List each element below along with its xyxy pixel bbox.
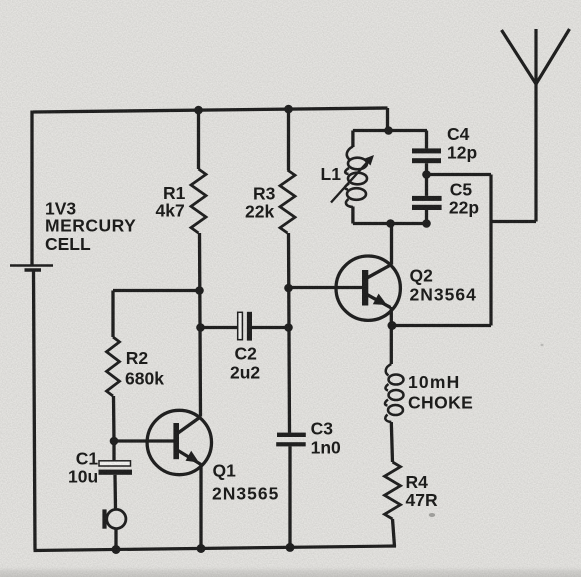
resistor R4 [385, 462, 401, 519]
transistor Q2 emitter diagonal [366, 294, 391, 308]
node dot R2 / Q1 base / C1 [110, 437, 119, 446]
node dot R1 bottom / R2 feed [195, 286, 204, 295]
wire left rail lower (battery -) [34, 272, 36, 550]
microphone MIC circle [107, 509, 126, 528]
wire supply drop to tank top [386, 108, 389, 131]
wire L1 bottom lead [351, 207, 354, 224]
transistor Q1 base bar [173, 423, 179, 459]
wire bottom ground rail [34, 546, 397, 551]
wire R1 top lead [197, 110, 200, 169]
transistor Q2 circle [336, 256, 400, 320]
inductor L1 adjuster arrow line [331, 158, 371, 203]
node dot C3 ground [286, 543, 295, 552]
wire C4 to C5 node [425, 163, 428, 174]
wire microphone to ground rail [114, 529, 117, 550]
wire top supply rail [33, 108, 388, 112]
wire Q2 collector to tank [390, 224, 393, 265]
choke mid hook 1 [385, 384, 388, 391]
capacitor C3 plate bottom [276, 442, 306, 446]
inductor L1 exit hook [346, 199, 353, 207]
wire C5 top lead [425, 175, 428, 196]
node dot Q2 base / R3 [284, 284, 293, 293]
inductor L1 mid hook 1 [345, 168, 349, 174]
wire C1 top lead [112, 441, 115, 461]
battery B1 short plate [25, 268, 42, 272]
wire R4 to ground rail [393, 519, 395, 547]
transistor Q1 emitter diagonal [178, 451, 201, 465]
node dot microphone ground [112, 545, 121, 554]
wire choke to R4 [391, 422, 392, 462]
wire Q2 emitter to node [390, 307, 393, 325]
node dot Q1 emitter ground [197, 544, 206, 553]
wire antenna branch to antenna [491, 220, 536, 223]
node dot C4 / C5 junction [422, 170, 431, 179]
wire R3 bottom to C3 [289, 233, 290, 433]
antenna left prong [502, 30, 537, 84]
choke loop 2 [389, 390, 404, 400]
node dot R3 top [284, 105, 293, 114]
capacitor C1 plate bottom (solid) [99, 470, 133, 475]
wire antenna branch vertical [489, 175, 492, 326]
inductor L1 entry hook [347, 147, 353, 160]
wire C3 to ground rail [288, 446, 291, 547]
wire C2 right lead [252, 326, 289, 329]
wire left rail upper (battery +) [30, 111, 33, 265]
inductor L1 loop 2 [348, 173, 367, 185]
antenna right prong [536, 29, 570, 84]
inductor L1 mid hook 2 [345, 184, 349, 190]
inductor L1 loop 1 [348, 158, 367, 170]
wire Q2 base [289, 286, 363, 289]
node dot Q1 collector / C2 left [196, 323, 205, 332]
inductor L1 adjuster arrow head [364, 155, 375, 166]
wire R2 bottom lead [112, 396, 116, 441]
wire R2 top lead [111, 291, 114, 338]
transistor Q1 circle [147, 410, 211, 474]
capacitor C3 plate top [277, 433, 306, 437]
transistor Q2 base bar [362, 270, 368, 306]
capacitor C2 plate right (solid) [247, 312, 252, 341]
transistor Q1 collector diagonal [178, 417, 201, 434]
wire C4 top lead [425, 131, 428, 149]
wire R3 top lead [287, 109, 290, 170]
paper speck near R4 [429, 513, 435, 517]
capacitor C5 plate top [412, 196, 442, 201]
wire C5 bottom lead [425, 210, 428, 224]
wire L1 top lead [351, 131, 354, 148]
wire Q1 emitter to ground rail [199, 464, 202, 549]
wire choke top lead [390, 325, 393, 364]
wire C2 left lead [200, 326, 238, 329]
paper speck near C5 right [541, 344, 544, 346]
capacitor C4 plate top [412, 148, 441, 153]
capacitor C4 plate bottom [412, 158, 441, 163]
resistor R1 [191, 169, 206, 233]
transistor Q2 emitter arrow [373, 294, 387, 305]
wire C5 node to antenna branch [427, 173, 492, 176]
wire Q1 base [114, 439, 174, 442]
microphone MIC element bar [102, 509, 106, 528]
transistor Q2 collector diagonal [366, 264, 392, 278]
node dot tank top [384, 126, 393, 135]
tank top wire [353, 129, 427, 132]
wire R1 bottom / Q1 collector riser [200, 233, 201, 417]
antenna mast vertical [534, 29, 537, 222]
resistor R3 [280, 170, 295, 233]
node dot C2 right / R3 [284, 323, 293, 332]
node dot tank bottom / Q2 collector [386, 219, 395, 228]
choke mid hook 2 [385, 400, 388, 406]
capacitor C5 plate bottom [412, 205, 442, 210]
node dot R1 top [194, 106, 203, 115]
battery B1 long plate [10, 264, 53, 266]
capacitor C1 plate top (hollow) [99, 461, 131, 466]
inductor L1 loop 3 [347, 188, 366, 200]
node dot C5 bottom [422, 219, 431, 228]
node dot Q2 emitter [388, 321, 397, 330]
scan grain texture [0, 0, 1, 1]
tank bottom wire [353, 222, 427, 225]
transistor Q1 emitter arrow [186, 451, 200, 463]
resistor R2 [107, 337, 120, 396]
capacitor C2 plate left (hollow) [238, 312, 243, 339]
choke loop 1 [389, 375, 404, 385]
choke loop 3 [388, 405, 403, 415]
wire R2 feed horizontal [113, 289, 200, 292]
wire C1 to microphone [113, 475, 117, 509]
choke entry hook [386, 364, 392, 376]
choke exit hook [385, 415, 391, 423]
wire emitter node to antenna branch [392, 324, 491, 327]
